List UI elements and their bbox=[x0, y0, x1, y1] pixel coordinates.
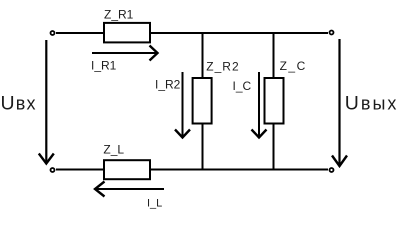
svg-text:Z_R2: Z_R2 bbox=[206, 60, 239, 74]
svg-text:Z_R1: Z_R1 bbox=[104, 8, 134, 22]
current arrow I_C bbox=[233, 72, 267, 138]
svg-text:Uвх: Uвх bbox=[1, 92, 37, 114]
capacitor Z_C bbox=[265, 59, 307, 124]
svg-text:I_R2: I_R2 bbox=[155, 78, 181, 92]
svg-text:I_C: I_C bbox=[233, 79, 252, 93]
current arrow I_R2 bbox=[155, 72, 190, 138]
voltage arrow Uvyx bbox=[332, 39, 347, 166]
wire top left bbox=[56, 32, 104, 34]
svg-text:Z_C: Z_C bbox=[280, 59, 307, 73]
wire branch Z_R2 lower bbox=[202, 123, 204, 170]
svg-text:I_L: I_L bbox=[147, 198, 162, 210]
wire branch Z_C upper bbox=[273, 32, 275, 78]
svg-text:Z_L: Z_L bbox=[103, 143, 124, 157]
wire branch Z_C lower bbox=[273, 123, 275, 170]
svg-text:I_R1: I_R1 bbox=[91, 59, 117, 73]
wire branch Z_R2 upper bbox=[202, 32, 204, 78]
wire bottom right bbox=[150, 169, 328, 171]
wire top right bbox=[150, 32, 328, 34]
current arrow I_R1 bbox=[91, 46, 158, 73]
voltage arrow Uvx bbox=[39, 40, 54, 164]
resistor Z_R1 bbox=[104, 8, 150, 43]
inductor Z_L bbox=[103, 143, 150, 180]
wire bottom left bbox=[56, 169, 104, 171]
current arrow I_L bbox=[95, 182, 164, 210]
resistor Z_R2 bbox=[193, 60, 240, 124]
terminal input bottom bbox=[51, 168, 55, 172]
terminal output bottom bbox=[330, 168, 334, 172]
svg-text:Uвых: Uвых bbox=[345, 93, 399, 115]
terminal output top bbox=[330, 31, 334, 35]
terminal input top bbox=[51, 31, 55, 35]
